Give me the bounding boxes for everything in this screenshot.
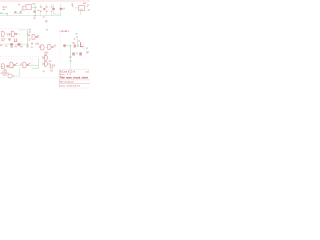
label right: [87, 4, 89, 5]
resistor R1 ref label: [2, 9, 5, 10]
dashed stub: [58, 50, 60, 52]
label under wire 2: [5, 45, 8, 47]
resistor R4: [51, 4, 53, 7]
relay K2 label: [83, 3, 86, 4]
label dots: [20, 63, 22, 65]
gate U4B: [45, 62, 48, 67]
label below: [50, 70, 53, 72]
transistor Q2: [2, 71, 7, 76]
component lower right: [79, 52, 82, 55]
label left: [0, 45, 2, 47]
wire blob right: [86, 47, 88, 49]
label: [43, 71, 45, 73]
wire L: [32, 59, 38, 69]
label: [37, 10, 39, 11]
group box dashed top: [0, 28, 28, 30]
Q2 pin right: [7, 73, 9, 75]
gate U4A input wire dot: [43, 57, 44, 59]
label between gates: [6, 33, 9, 35]
label under diode: [10, 46, 13, 48]
wire vertical: [76, 38, 78, 47]
pin label: [28, 63, 30, 65]
wire: [54, 13, 61, 15]
wire vertical: [19, 67, 21, 76]
gate U3A: [2, 64, 5, 69]
component lower: [72, 52, 75, 55]
label: [72, 42, 75, 44]
main horizontal wire: [0, 15, 61, 17]
wire left horizontal: [0, 13, 7, 15]
wire up and right: [18, 29, 27, 32]
gate U4A: [45, 55, 48, 60]
diode D3: [10, 43, 13, 46]
pin label: [54, 45, 56, 46]
wire horizontal: [31, 7, 36, 9]
gate U1A: [1, 31, 4, 36]
gate U1C bubble: [36, 36, 38, 38]
wire vertical mid: [70, 46, 72, 58]
title block left border: [58, 70, 60, 88]
svg-text:KiCad E.D.A.: KiCad E.D.A.: [60, 70, 76, 73]
label: [78, 40, 80, 42]
wire stub: [77, 45, 79, 47]
gate U3B bubble: [14, 64, 16, 66]
label under: [44, 52, 48, 53]
wire: [29, 65, 39, 67]
diode D4: [17, 43, 20, 46]
junction: [34, 15, 36, 17]
LED D1: [52, 8, 55, 10]
gate U3C: [23, 62, 26, 68]
resistor body R2: [43, 8, 45, 10]
label above Q2: [4, 69, 7, 70]
label: [45, 20, 48, 22]
crystal Y1: [14, 38, 16, 41]
diode D5: [81, 42, 84, 46]
Q3 pin: [12, 75, 14, 77]
wire: [14, 13, 22, 15]
label: [75, 33, 77, 35]
relay K1 label: [32, 3, 34, 4]
Q2 pin left: [0, 72, 2, 74]
gate U2A: [41, 45, 44, 50]
wire right of K2: [86, 6, 88, 8]
LED D2: [60, 8, 63, 10]
title block divider 2: [59, 79, 90, 81]
label right: [86, 51, 89, 53]
transistor Q1: [63, 44, 66, 47]
LED D2 label: [63, 8, 65, 9]
label: [74, 38, 76, 40]
wire end blob: [69, 56, 71, 58]
label: [43, 16, 45, 17]
dashed boundary bottom: [0, 77, 58, 79]
gate U3B ref: [6, 65, 8, 68]
junction: [27, 33, 29, 35]
capacitor C1 ref label: [18, 4, 20, 6]
wire: [17, 33, 21, 35]
dashed boundary bottom-left top: [0, 56, 45, 58]
resistor R3: [45, 4, 47, 7]
pin label: [37, 35, 39, 36]
transistor Q3: [8, 74, 12, 78]
capacitor C1 body: [23, 6, 26, 10]
pin label: [49, 63, 51, 65]
wire stub: [76, 52, 78, 54]
wire below K2: [80, 11, 82, 15]
sheet top border: [0, 0, 90, 2]
wire vertical: [34, 4, 36, 16]
capacitor C1 pin 2: [19, 11, 21, 13]
label right of wire low: [29, 38, 31, 39]
power flag VCC: [72, 3, 74, 5]
gate U1B bubble: [15, 33, 17, 35]
label under wire 3: [15, 46, 18, 48]
label under junction: [33, 17, 35, 19]
gate U2A input dots: [39, 46, 40, 49]
gate U1C: [32, 35, 35, 40]
gate U3B: [10, 62, 13, 68]
sheet label row right: [59, 31, 60, 32]
dashed boundary second: [0, 58, 32, 60]
label: [31, 42, 33, 44]
labels right of wire: [29, 29, 31, 30]
gate U4B dots: [41, 63, 44, 65]
label right low: [88, 9, 90, 11]
vertical wire: [27, 30, 29, 47]
label below cluster: [31, 46, 33, 48]
label near vertical wire: [26, 45, 28, 47]
wire stub: [6, 13, 8, 15]
gate U4A dots: [41, 56, 44, 59]
resistor R1 value label: [2, 6, 5, 7]
gate U2B bubble: [52, 46, 54, 48]
label: [37, 43, 39, 45]
svg-text:Title: main_circuit_sheet: Title: main_circuit_sheet: [60, 77, 88, 80]
relay K2 inner mark: [80, 9, 83, 10]
wire: [38, 36, 40, 38]
label row under gates: [1, 38, 5, 39]
svg-text:File: kicad.sch: File: kicad.sch: [60, 81, 75, 83]
no-connect: [46, 29, 48, 31]
title block top dashed: [59, 69, 90, 71]
wire: [72, 5, 74, 7]
wire: [45, 46, 47, 48]
gate U1B: [11, 31, 14, 37]
wire into title area: [70, 58, 72, 70]
svg-text:Date: 2024-05-01: Date: 2024-05-01: [60, 84, 81, 87]
gate U3A input wire: [0, 65, 3, 67]
wire row 2: [0, 43, 28, 45]
capacitor C1 pin: [14, 11, 16, 13]
wire: [66, 45, 71, 47]
wire into K2: [75, 7, 79, 9]
title block divider 3: [59, 83, 90, 85]
wire stub: [35, 43, 37, 45]
junction: [27, 43, 29, 45]
wire vertical right: [83, 43, 85, 50]
dashed boundary vertical: [31, 59, 33, 72]
wire stub: [76, 36, 78, 38]
crystal Y2: [50, 64, 52, 69]
label under wire 4: [20, 46, 23, 48]
wire: [21, 9, 23, 13]
title block bottom border: [59, 87, 90, 89]
dashed sheet boundary vertical: [59, 33, 61, 62]
wire junction left: [0, 12, 2, 14]
gate U4B input wire dot: [43, 63, 44, 65]
component: [74, 44, 76, 47]
gate U3C bubble: [27, 64, 29, 66]
wire: [53, 46, 55, 48]
relay K2 body: [79, 6, 85, 11]
gate U2B: [48, 44, 51, 49]
wire: [6, 65, 10, 67]
pin label: [16, 63, 18, 65]
wire: [13, 75, 20, 77]
wire: [16, 64, 23, 66]
junction K1: [34, 7, 36, 9]
label GND: [33, 11, 36, 13]
junction: [70, 45, 72, 47]
wire blob: [12, 66, 14, 68]
label U5: [49, 60, 52, 62]
resistor R2: [40, 4, 42, 7]
label right: [53, 64, 55, 66]
wire: [6, 33, 12, 35]
relay K1 body: [26, 5, 31, 10]
